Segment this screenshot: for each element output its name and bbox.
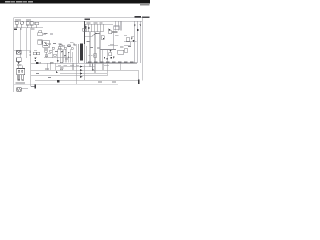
label above cluster (110, 43, 114, 46)
title bar text word 3 (16, 1, 22, 3)
wire vertical (101, 50, 103, 64)
small part label (60, 67, 64, 70)
ground lug dark (57, 80, 60, 82)
diode D961 (140, 25, 142, 27)
sub-board box left wall (46, 63, 48, 70)
wire vertical right (138, 70, 140, 84)
resistor R902 (38, 33, 43, 36)
wire corner drop 4 (106, 63, 108, 76)
label R915 (55, 50, 58, 53)
varistor tall rect line (25, 28, 27, 58)
wire label row (58, 64, 61, 67)
wire corner drop 2 (92, 63, 94, 70)
bus label 1 (88, 61, 92, 64)
wire secondary drop 1 (86, 46, 88, 63)
wire drop (117, 21, 119, 31)
ground bus heavy right (86, 62, 137, 64)
resistor R951 (109, 53, 112, 56)
plug foot right (22, 80, 24, 82)
wire secondary drop 3 (94, 32, 96, 63)
wire label row 2 (64, 64, 68, 67)
junction dot 2 (57, 60, 58, 61)
tick dark (103, 38, 104, 40)
AC plug P901 body (17, 68, 25, 74)
capacitor C2 (30, 22, 33, 25)
rectifier column wire 2 (84, 64, 86, 80)
degauss coil tall rect line (20, 28, 22, 58)
resistor R905 (33, 52, 36, 55)
diode D953 (113, 57, 115, 59)
wire from ground (21, 88, 28, 90)
wire drop (36, 25, 38, 28)
dark arrow blob (110, 57, 112, 59)
wire label row 5 (104, 64, 109, 67)
small part R971 (60, 69, 63, 70)
resistor R922 (58, 47, 60, 49)
diode D972 (80, 69, 82, 71)
tick on wire (29, 52, 31, 53)
rectifier column wire (76, 44, 78, 84)
diode D973 (80, 72, 82, 74)
dark dash on bus 2 (60, 63, 63, 64)
label Q901 (58, 48, 62, 51)
wire label row 4 (76, 64, 79, 67)
relay box RL901 (126, 38, 130, 41)
wire corner drop 1 (89, 63, 91, 67)
cap line across tall rects (14, 49, 31, 51)
bus label 4 (106, 61, 110, 64)
diode D963 (133, 40, 135, 42)
fuse F1 (20, 21, 23, 24)
label cluster mid (44, 44, 47, 47)
switch junction dot (95, 33, 96, 34)
wire vertical mid (113, 31, 115, 50)
wire vertical inside (54, 63, 56, 70)
wire vertical controller (56, 49, 58, 63)
posistor box (39, 31, 42, 33)
switch S901 diagonal (92, 33, 96, 36)
resistor R921 (52, 47, 54, 49)
resistor R910 (45, 50, 48, 52)
label dark mid (112, 31, 117, 32)
arrow down under C905 (18, 62, 20, 64)
wire secondary drop 4 (99, 32, 101, 63)
label NR small top (43, 33, 46, 36)
diode D960 (134, 25, 136, 27)
wire secondary drop 2 (89, 32, 91, 63)
label scatter k (48, 76, 51, 79)
ground bus far left (31, 62, 44, 64)
regulator box IC951 (118, 50, 124, 54)
wire vertical (69, 49, 71, 63)
plug slot right (22, 70, 23, 72)
wire label row 3 (70, 64, 74, 67)
resistor R913 (54, 54, 57, 56)
wire corner drop 3 (94, 63, 96, 73)
schematic border top (14, 17, 143, 19)
wire drop (139, 21, 141, 63)
label cluster mid3 (67, 45, 71, 48)
diode D908 (68, 52, 70, 54)
plug top wire left (18, 66, 20, 69)
wire drop far right (134, 21, 136, 63)
wire horizontal relay (124, 41, 137, 43)
ground hatch (17, 88, 22, 92)
tick on wire (29, 55, 31, 56)
regulator box Q950 (109, 31, 112, 34)
label NR (44, 32, 48, 35)
plug top label (17, 63, 21, 66)
bus label 5 (112, 61, 116, 64)
diode D903 (34, 58, 36, 60)
wire vertical (106, 50, 108, 64)
wire primary drop (84, 21, 86, 44)
label row y44 b (53, 42, 56, 45)
plug leg left (18, 75, 20, 80)
capacitor C905 (17, 58, 22, 62)
bus label 6 (118, 61, 122, 64)
resistor R911 (50, 50, 53, 52)
label scatter f (128, 45, 131, 48)
label row y44 c (59, 43, 62, 46)
label scatter a (97, 32, 100, 35)
bus label 3 (100, 61, 104, 64)
wire vertical inside (49, 63, 51, 70)
label on comb 1 (87, 22, 91, 25)
diode D962 (131, 38, 133, 40)
switch feed wire (85, 35, 92, 37)
wire drop fuse (21, 25, 23, 28)
wire drop (16, 24, 18, 28)
tick mark (20, 28, 22, 29)
title bar (0, 0, 150, 3)
label row y44 d (74, 44, 77, 47)
wire drop top right (114, 21, 116, 31)
wire vertical (62, 49, 64, 63)
comb bottom rail (86, 31, 104, 33)
wire vertical (102, 63, 104, 70)
label D951 (85, 19, 91, 20)
wire drop (137, 21, 139, 63)
plus sign label (39, 62, 41, 63)
label IC901 (44, 48, 48, 51)
capacitor C912 polarized blob (36, 62, 38, 64)
photocoupler PC901 (43, 41, 50, 48)
plug leg right (22, 75, 24, 80)
label posistor (50, 33, 53, 36)
wire horizontal (100, 49, 116, 51)
bridge rectifier D901 (17, 51, 22, 55)
plug slot left (18, 70, 19, 72)
ground stub wire (31, 86, 35, 88)
wire horizontal short (108, 44, 118, 46)
capacitor C951 (94, 54, 97, 58)
secondary rectifier comb D952-D959 (85, 24, 87, 31)
wire vertical (59, 49, 61, 63)
arrow marker (56, 71, 58, 73)
rail label left (45, 68, 49, 71)
dark dash on bus (50, 63, 53, 64)
title bar text word 5 (28, 1, 33, 3)
label on comb 3 (100, 22, 103, 25)
junction dot (68, 56, 69, 57)
wire drop (120, 21, 122, 31)
chassis ground G1 (17, 88, 22, 92)
schematic border bottom (14, 83, 118, 85)
label scatter m (112, 81, 116, 84)
output rail wire 4 (35, 79, 139, 81)
resistor R906 (37, 52, 40, 55)
connector CN971 dark mark (138, 79, 140, 83)
label cluster mid2 (60, 44, 64, 47)
bus label 7 (124, 61, 128, 64)
output rail wire 3 (31, 75, 107, 77)
label scatter l (98, 81, 102, 84)
wire stub a (46, 53, 48, 58)
label scatter d (131, 35, 134, 38)
wire AC bus top (14, 20, 142, 22)
plug top wire right (21, 66, 23, 69)
label scatter b (115, 34, 119, 37)
resistor R903 (38, 40, 42, 44)
diode D959 arrow (108, 28, 110, 30)
label near transformer (70, 41, 73, 44)
small part Q902 (60, 45, 62, 47)
title bar text word 4 (23, 1, 28, 3)
wire vertical extra 2 (71, 52, 73, 63)
transformer secondary winding (84, 44, 86, 63)
plug foot left (18, 80, 20, 82)
transformer primary winding (78, 44, 80, 63)
sub-board box bottom (47, 69, 73, 71)
transformer T901 core (80, 44, 83, 61)
wire stub b (52, 53, 54, 58)
wire vertical extra 1 (67, 52, 69, 63)
label C913 (65, 58, 68, 61)
diode D974 (80, 76, 82, 78)
wire corner (124, 42, 131, 45)
arrow on rail (92, 69, 94, 71)
bus label 8 (130, 61, 134, 64)
plug label text (16, 83, 25, 84)
label scatter c (124, 34, 127, 37)
diode D906 (61, 51, 63, 53)
label on comb 2 (94, 22, 98, 25)
schematic sheet label (top-right) (135, 16, 142, 18)
dark tick comb finger 2 (88, 27, 89, 29)
label scatter i (34, 49, 37, 52)
label R914 (48, 52, 51, 55)
wire drop (27, 25, 29, 28)
capacitor C960 (114, 26, 120, 30)
schematic border left (13, 18, 15, 92)
resistor R961 (124, 49, 127, 52)
output rail wire 2 (60, 72, 107, 74)
output rail wire 12V (56, 66, 95, 68)
label degauss (31, 28, 35, 31)
wire vertical (65, 49, 67, 63)
diode D904 (34, 60, 36, 62)
resistor R924 (71, 48, 73, 50)
wire AC lower bus (14, 27, 43, 29)
capacitor C1 (26, 22, 29, 25)
label row y44 a (48, 43, 51, 46)
relay tick (14, 29, 17, 31)
ground bus left (44, 62, 86, 64)
page number text top-right (140, 4, 149, 6)
tick near transformer (73, 43, 74, 44)
label above filter (15, 19, 21, 22)
resistor R912 (45, 55, 48, 57)
resistor R1 (35, 22, 39, 25)
small part Q903 (68, 45, 70, 47)
bus label 2 (94, 61, 98, 64)
phototransistor arrow (47, 45, 49, 47)
snubber capacitor C910 (83, 28, 87, 31)
wire vertical (30, 28, 32, 86)
dark tick comb finger 1 (85, 26, 86, 29)
page background (0, 0, 150, 98)
photocoupler LED arrow (44, 42, 47, 44)
label scatter g (90, 46, 93, 49)
diode D952 (110, 50, 112, 52)
dashed link (89, 54, 95, 56)
resistor R923 (64, 47, 66, 49)
diode D971 (80, 66, 82, 68)
title bar text word 2 (11, 1, 15, 3)
wire drop (31, 25, 33, 28)
sub-board box right wall (72, 63, 74, 70)
connector pin dark (35, 84, 37, 88)
thermistor TH901 (101, 36, 104, 40)
wire vertical (120, 63, 122, 70)
label above caps (26, 19, 31, 22)
label T901 (87, 40, 91, 43)
junction dark b (107, 58, 108, 59)
diode D907 (64, 55, 66, 57)
schematic border right (141, 18, 143, 81)
label scatter h (97, 47, 100, 50)
line filter L1 (15, 22, 18, 25)
wire horizontal controller (44, 57, 72, 59)
junction dark a (104, 57, 105, 58)
output rail wire 1 (31, 69, 139, 71)
wire secondary top bus (85, 23, 114, 25)
label scatter e (120, 46, 123, 49)
capacitor C961 polarity dot (137, 29, 139, 31)
title bar text word 1 (5, 1, 11, 3)
label scatter j (36, 72, 39, 75)
